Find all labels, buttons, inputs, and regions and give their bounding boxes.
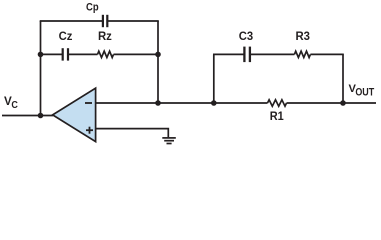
node junction Cz branch left [38, 52, 44, 58]
capacitor Cz [63, 48, 68, 60]
wire output main horizontal to R1 [96, 102, 268, 104]
ground [162, 138, 176, 144]
node junction VOUT [340, 100, 346, 106]
resistor R1 [268, 100, 287, 106]
svg-text:Rz: Rz [98, 30, 112, 43]
op-amp minus pin symbol [85, 102, 92, 104]
wire R1 to VOUT [287, 102, 377, 104]
wire top branch right of Cp [108, 20, 159, 22]
wire middle branch Cz to Rz [68, 53, 98, 55]
wire middle branch left of Cz [41, 53, 63, 55]
node junction Cz branch right [155, 52, 161, 58]
label VOUT [349, 83, 375, 98]
svg-text:Cz: Cz [59, 30, 73, 43]
wire right feedback vertical [157, 21, 159, 103]
wire left feedback vertical [40, 21, 42, 116]
label VC [4, 96, 18, 111]
svg-text:C3: C3 [239, 30, 254, 43]
op-amp plus pin symbol [86, 127, 93, 134]
op-amp A1 [53, 88, 96, 141]
node junction C3 loop left [211, 100, 217, 106]
capacitor C3 [244, 47, 250, 63]
node junction VC-feedback [38, 113, 44, 119]
svg-text:OUT: OUT [355, 87, 374, 99]
capacitor Cp [103, 15, 107, 27]
wire top branch left of Cp [40, 20, 102, 22]
wire middle branch Rz to node [114, 53, 159, 55]
resistor Rz [98, 51, 114, 57]
svg-text:R1: R1 [270, 110, 284, 123]
wire R3 to right vertical [310, 53, 343, 55]
wire C3 loop right vertical [342, 54, 344, 103]
wire C3 loop left vertical [213, 54, 215, 103]
wire C3 to R3 [250, 53, 295, 55]
wire VC input horizontal [2, 115, 53, 117]
wire plus input to ground [96, 129, 169, 138]
svg-text:R3: R3 [295, 30, 310, 43]
svg-text:Cp: Cp [86, 2, 99, 14]
resistor R3 [294, 51, 310, 57]
svg-text:C: C [11, 100, 18, 111]
node junction output-feedback [155, 100, 161, 106]
wire top right branch to C3 [213, 53, 244, 55]
